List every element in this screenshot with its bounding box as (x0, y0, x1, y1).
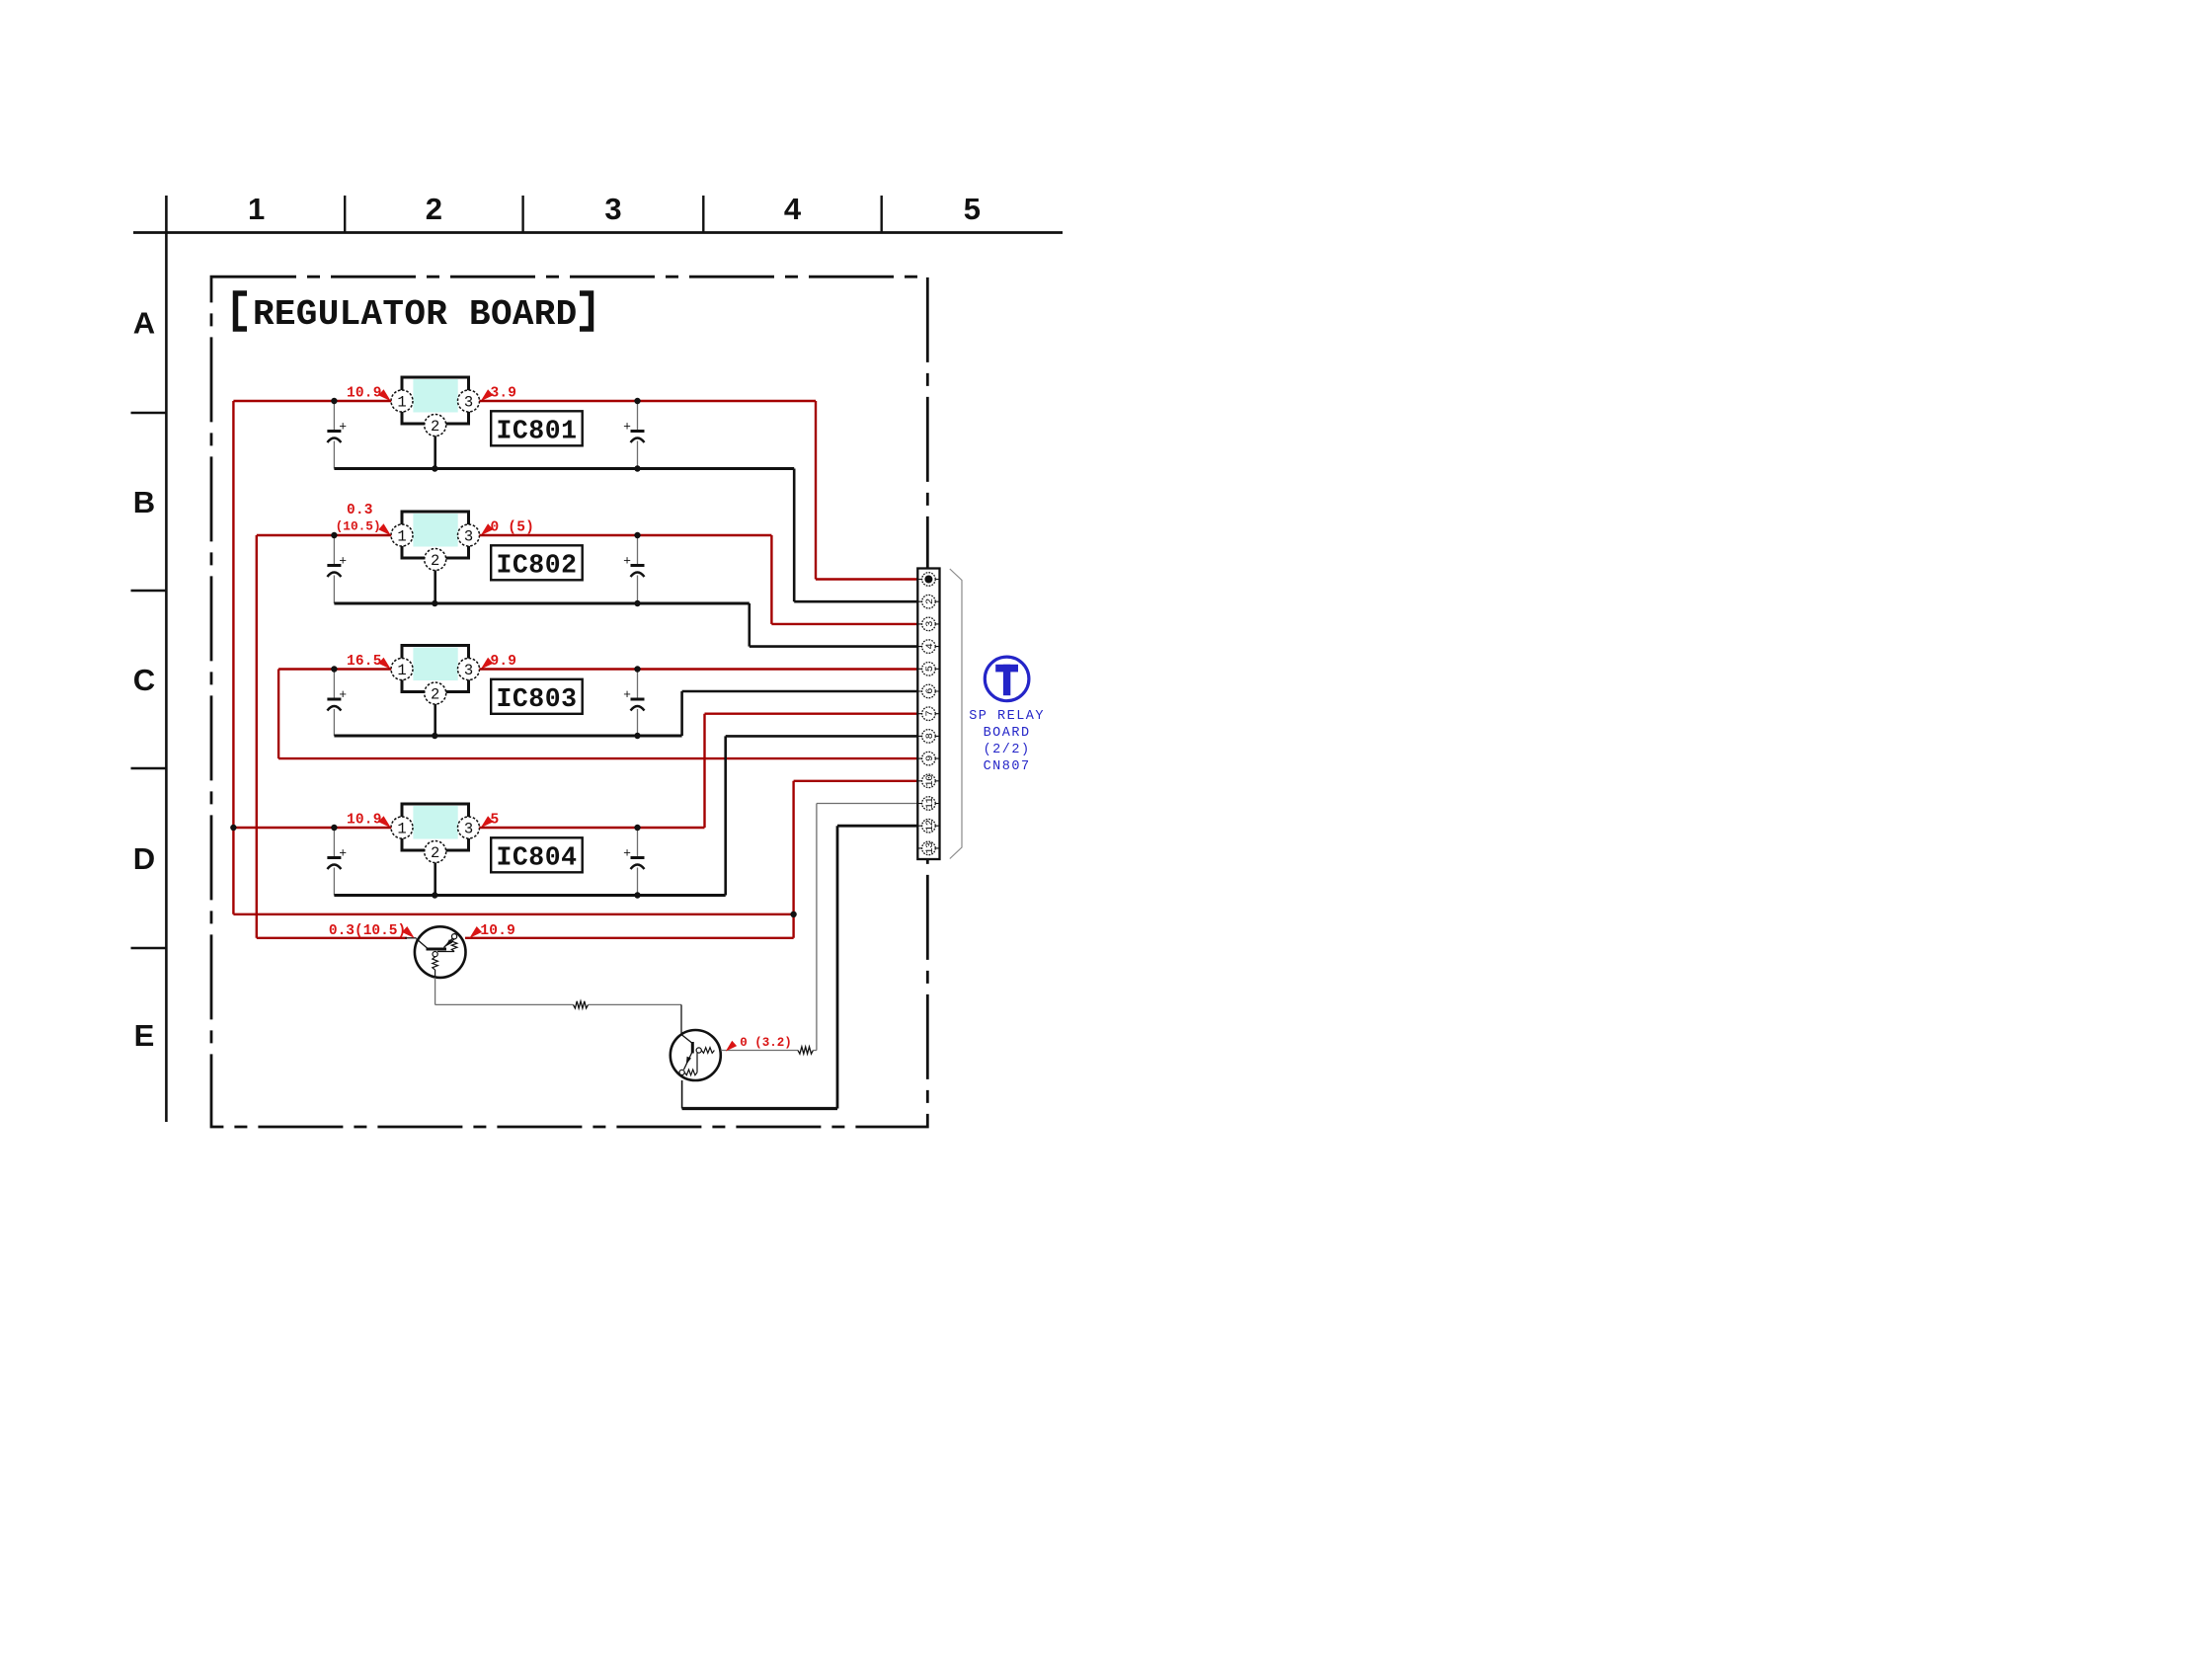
junction IC802 input at C3 (331, 532, 337, 538)
Q1 collector red wire to connector pin 10 (465, 781, 918, 938)
junction IC804 output at C8 (634, 825, 640, 831)
junction IC802 output at C4 (634, 532, 640, 538)
IC804 pin 2 (425, 841, 446, 863)
svg-text:8: 8 (924, 733, 936, 739)
IC804 ground wire up to connector pin 8 (726, 736, 919, 895)
IC801 pin 2 (425, 415, 446, 437)
junction IC804 input at C7 (331, 825, 337, 831)
IC802 pin 1 (391, 524, 413, 546)
connector CN807 body (917, 569, 939, 860)
IC804 input arrow (378, 816, 391, 828)
IC804 ground bus wire (334, 894, 725, 897)
svg-text:+: + (623, 686, 631, 701)
svg-text:1: 1 (397, 528, 406, 546)
svg-text:2: 2 (431, 418, 439, 436)
IC802 pin 2 (425, 549, 446, 571)
Q1 base arrow (402, 926, 415, 938)
IC802 input voltage label (336, 503, 381, 534)
svg-text:D: D (133, 841, 155, 876)
Q1 collector arrow (469, 926, 482, 938)
svg-text:10.9: 10.9 (347, 813, 382, 829)
svg-text:12: 12 (924, 820, 936, 832)
IC804 output voltage label (491, 813, 500, 829)
transistor Q1 circle (415, 926, 466, 978)
Q2 collector arrow (726, 1041, 737, 1052)
T-in-circle logo (985, 657, 1029, 701)
svg-text:1: 1 (397, 662, 406, 679)
IC801 input electrolytic capacitor (327, 403, 347, 469)
grid ruler column ticks (345, 196, 882, 233)
svg-text:0.3: 0.3 (347, 503, 373, 518)
svg-text:16.5: 16.5 (347, 654, 382, 670)
IC804 input electrolytic capacitor (327, 830, 347, 896)
svg-text:3: 3 (924, 621, 936, 627)
regulator IC802 body (402, 512, 469, 558)
svg-text:4: 4 (924, 644, 936, 650)
IC802 output arrow (481, 523, 494, 535)
IC803 pin 2 ground stub wire (434, 704, 436, 736)
Q2 collector wire with resistor to connector pin 11 (721, 804, 918, 1055)
Q1 emitter wire down (435, 978, 574, 1005)
IC801 reference label box (491, 411, 583, 445)
svg-text:1: 1 (397, 821, 406, 838)
svg-text:9: 9 (924, 755, 936, 761)
IC804 pin 2 ground stub wire (434, 863, 436, 896)
svg-text:3: 3 (464, 528, 473, 546)
IC801 output red wire to connector pin 1 (816, 401, 918, 580)
svg-text:IC802: IC802 (496, 550, 577, 580)
IC803 output voltage label (491, 654, 517, 670)
IC802 pin 2 ground stub wire (434, 571, 436, 604)
svg-text:B: B (133, 485, 155, 519)
IC801 pin 3 (458, 390, 480, 412)
junction IC802 ground pin2 (432, 600, 437, 606)
svg-text:+: + (623, 845, 631, 860)
svg-text:6: 6 (924, 688, 936, 694)
connector pin 10 (917, 774, 939, 788)
svg-text:2: 2 (431, 686, 439, 704)
svg-text:+: + (339, 845, 347, 860)
svg-text:BOARD: BOARD (984, 726, 1031, 741)
regulator IC803 body (402, 646, 469, 692)
junction IC801 ground at C2 (634, 465, 640, 471)
grid row letters A-E (133, 306, 155, 1053)
Q2 emitter wire to connector pin 12 (682, 826, 919, 1108)
svg-text:C: C (133, 663, 155, 697)
junction IC801 input at C1 (331, 398, 337, 404)
svg-text:2: 2 (426, 192, 442, 226)
IC803 input electrolytic capacitor (327, 672, 347, 737)
svg-text:2: 2 (924, 598, 936, 604)
svg-text:IC803: IC803 (496, 684, 577, 714)
IC802 input red wire (257, 534, 772, 536)
svg-text:1: 1 (397, 394, 406, 412)
junction IC801 output at C2 (634, 398, 640, 404)
svg-text:11: 11 (924, 798, 936, 810)
IC804 input red wire (233, 827, 704, 829)
svg-text:+: + (623, 553, 631, 568)
grid ruler top line (133, 231, 1063, 234)
IC801 ground wire down to connector pin 2 (794, 469, 918, 602)
Q1 base voltage label 0.3(10.5) (329, 923, 406, 939)
IC803 reference label box (491, 679, 583, 714)
svg-text:2: 2 (431, 844, 439, 862)
IC804 output electrolytic capacitor (623, 830, 644, 896)
transistor Q2 circle (671, 1030, 721, 1080)
grid column numbers 1-5 (248, 192, 981, 226)
svg-text:3: 3 (464, 394, 473, 412)
IC801 input arrow (378, 389, 391, 401)
IC801 pin 1 (391, 390, 413, 412)
regulator IC801 body (402, 377, 469, 424)
junction IC801 ground pin2 (432, 465, 437, 471)
svg-text:9.9: 9.9 (491, 654, 517, 670)
IC802 output voltage label (491, 520, 535, 536)
red feed vertical from IC802 wire down to Q1 base (257, 535, 417, 938)
svg-text:CN807: CN807 (984, 759, 1031, 774)
connector pin 1 (917, 573, 939, 587)
IC804 input voltage label (347, 813, 382, 829)
IC803 pin 2 (425, 682, 446, 704)
IC801 output arrow (481, 389, 494, 401)
grid ruler left vertical line (165, 196, 168, 1122)
IC802 output red wire to connector pin 3 (771, 535, 918, 624)
junction Q1 collector net to pin 10 (790, 912, 796, 917)
connector pin 11 (917, 797, 939, 811)
svg-text:0 (5): 0 (5) (491, 520, 535, 536)
board title right lenticular bracket (580, 293, 592, 329)
regulator board dash-dot border (211, 277, 927, 1127)
IC803 input/output red wire to connector pin 5 (278, 668, 918, 670)
junction IC803 output at C6 (634, 666, 640, 672)
IC803 pin 3 (458, 659, 480, 680)
svg-text:SP RELAY: SP RELAY (969, 709, 1045, 724)
svg-text:5: 5 (924, 666, 936, 672)
connector pin 9 (917, 752, 939, 765)
connector pin 3 (917, 617, 939, 631)
connector pin 8 (917, 730, 939, 744)
IC803 ground bus wire (334, 735, 681, 738)
svg-text:E: E (134, 1018, 155, 1053)
svg-text:10.9: 10.9 (347, 386, 382, 402)
SP RELAY BOARD (2/2) CN807 label (969, 709, 1045, 774)
junction IC803 ground pin2 (432, 733, 437, 739)
svg-text:10: 10 (924, 775, 936, 787)
svg-text:3: 3 (464, 821, 473, 838)
IC801 output electrolytic capacitor (623, 403, 644, 469)
svg-text:IC801: IC801 (496, 416, 577, 445)
junction IC802 ground at C4 (634, 600, 640, 606)
svg-text:3.9: 3.9 (491, 386, 517, 402)
svg-text:+: + (339, 553, 347, 568)
regulator IC804 body (402, 804, 469, 850)
series resistor between Q1 and Q2 (574, 1001, 589, 1008)
connector brace (950, 569, 962, 859)
svg-text:REGULATOR BOARD: REGULATOR BOARD (253, 294, 578, 335)
svg-text:2: 2 (431, 552, 439, 570)
IC801 input red wire (233, 400, 816, 402)
red feed vertical from IC801 wire down to Q1 net (233, 401, 793, 914)
svg-text:IC804: IC804 (496, 842, 577, 872)
junction IC804 ground pin2 (432, 892, 437, 898)
IC801 ground bus wire (334, 467, 794, 470)
IC804 output red wire up to connector pin 7 (705, 714, 919, 828)
Q2 collector voltage label 0 (3.2) (740, 1036, 792, 1050)
svg-text:(2/2): (2/2) (984, 743, 1031, 757)
IC802 input electrolytic capacitor (327, 537, 347, 603)
IC801 input voltage label (347, 386, 382, 402)
junction IC804 ground at C8 (634, 892, 640, 898)
transistor Q1 internal symbol (417, 934, 457, 978)
IC801 pin 2 ground stub wire (434, 437, 436, 469)
board title left lenticular bracket (236, 293, 248, 329)
IC803 output electrolytic capacitor (623, 672, 644, 737)
IC804 pin 3 (458, 817, 480, 838)
svg-text:0 (3.2): 0 (3.2) (740, 1036, 792, 1050)
board title REGULATOR BOARD (253, 294, 578, 335)
IC802 ground bus wire (334, 602, 749, 605)
IC802 input arrow (378, 523, 391, 535)
IC801 output voltage label (491, 386, 517, 402)
IC803 output arrow (481, 658, 494, 670)
svg-text:1: 1 (248, 192, 265, 226)
svg-text:(10.5): (10.5) (336, 519, 381, 534)
wire from resistor to Q2 base (589, 1004, 682, 1034)
IC803 input voltage label (347, 654, 382, 670)
IC802 pin 3 (458, 524, 480, 546)
IC804 reference label box (491, 837, 583, 872)
IC804 output arrow (481, 816, 494, 828)
connector pin 2 (917, 595, 939, 608)
svg-text:+: + (339, 686, 347, 701)
svg-text:A: A (133, 306, 155, 341)
connector pin 6 (917, 684, 939, 698)
IC802 ground wire down to connector pin 4 (750, 603, 918, 647)
svg-text:3: 3 (604, 192, 621, 226)
svg-text:+: + (339, 419, 347, 434)
svg-text:+: + (623, 419, 631, 434)
svg-text:4: 4 (784, 192, 802, 226)
svg-text:3: 3 (464, 662, 473, 679)
IC803 ground wire up to connector pin 6 (682, 691, 919, 736)
grid ruler row ticks (131, 413, 167, 948)
svg-text:0.3(10.5): 0.3(10.5) (329, 923, 406, 939)
junction IC803 ground at C6 (634, 733, 640, 739)
svg-text:10.9: 10.9 (480, 923, 515, 939)
IC802 reference label box (491, 545, 583, 580)
transistor Q2 internal symbol (679, 1035, 714, 1075)
connector pin 7 (917, 707, 939, 721)
IC803 pin 1 (391, 659, 413, 680)
svg-text:13: 13 (924, 842, 936, 854)
IC803 red branch down to pin 9 wire (278, 670, 918, 759)
junction IC804 input feed tap (230, 825, 236, 831)
IC804 pin 1 (391, 817, 413, 838)
IC803 input arrow (378, 658, 391, 670)
svg-text:5: 5 (964, 192, 981, 226)
IC802 output electrolytic capacitor (623, 537, 644, 603)
junction IC803 input at C5 (331, 666, 337, 672)
Q1 collector voltage label 10.9 (480, 923, 515, 939)
connector pin 5 (917, 663, 939, 676)
connector pin 12 (917, 819, 939, 833)
connector pin 13 (917, 841, 939, 855)
connector pin 4 (917, 640, 939, 654)
svg-text:7: 7 (924, 711, 936, 717)
